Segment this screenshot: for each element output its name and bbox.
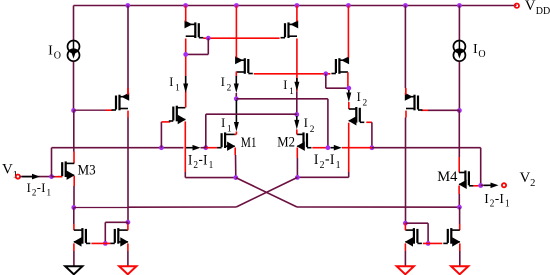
node Qbl-gates — [103, 241, 108, 246]
svg-text:2: 2 — [530, 178, 535, 189]
wire T2 source — [185, 6, 187, 22]
wire M1 source b — [235, 155, 237, 178]
wire Qbr1 gnd — [404, 243, 406, 266]
svg-text:I: I — [188, 153, 193, 169]
node T2-drain-diode — [183, 52, 188, 57]
wire T3-T4 gate — [254, 73, 331, 75]
wire T4 drain a — [347, 72, 349, 88]
arrow I1-left — [183, 76, 188, 93]
wire M4 source a — [458, 186, 460, 195]
svg-text:M2: M2 — [277, 135, 295, 151]
wire T7 drain b — [296, 91, 298, 114]
svg-text:1: 1 — [47, 187, 52, 197]
wire T6 drain — [348, 102, 350, 109]
svg-text:I: I — [221, 116, 225, 130]
wire M1 drain — [235, 132, 237, 135]
transistor T2 — [185, 20, 204, 38]
wire T8 drain a — [405, 111, 407, 118]
svg-text:I: I — [304, 116, 308, 130]
wire Qbr2 drain a — [459, 207, 461, 224]
label M1 — [241, 134, 257, 151]
wire V1-rail — [51, 148, 53, 177]
wire T8 source — [404, 6, 406, 95]
terminal V2 — [502, 183, 506, 187]
svg-text:I: I — [41, 181, 45, 195]
wire Qbl2 drain — [127, 222, 129, 230]
svg-text:I: I — [330, 152, 335, 168]
arrow I2-348 — [346, 90, 351, 102]
node T1-gate — [71, 108, 76, 113]
transistor M2 — [297, 132, 312, 151]
wire V1-M3gate b — [55, 176, 62, 178]
wire T1 source — [127, 6, 129, 95]
wire T7 drain a — [296, 39, 298, 92]
transistor Qbl1 — [73, 228, 90, 247]
svg-text:1: 1 — [209, 160, 214, 172]
wire bottom-right long — [297, 206, 459, 208]
wire T2 drain — [185, 39, 187, 108]
node T5-gate-rail — [159, 145, 164, 150]
wire box-left bottom — [185, 177, 236, 179]
transistor T7 — [281, 20, 299, 38]
arrow I1-M1 — [234, 100, 239, 132]
node rail-M1link — [203, 145, 208, 150]
svg-text:I: I — [500, 190, 504, 206]
node rail-M2link — [326, 145, 331, 150]
wire rail-right b — [372, 147, 481, 149]
svg-text:I: I — [221, 75, 225, 89]
svg-text:I: I — [357, 90, 361, 104]
wire bottom-left long — [74, 206, 236, 209]
wire V1 — [20, 176, 52, 178]
transistor T5 — [169, 106, 186, 125]
svg-text:I: I — [283, 78, 287, 92]
wire T2-T7 gate — [203, 37, 279, 39]
wire T6 source — [348, 123, 350, 178]
svg-text:1: 1 — [227, 125, 232, 135]
svg-text:M3: M3 — [77, 161, 95, 178]
ground Qbr1 — [397, 266, 414, 274]
node rail-T4 — [346, 3, 351, 8]
wire T4 diode h — [326, 87, 349, 89]
wire X diag lr — [236, 178, 297, 207]
wire T4 source — [347, 6, 349, 58]
wire M4 drain b — [458, 157, 460, 173]
label M4 — [437, 169, 458, 185]
wire link-114 h — [206, 113, 297, 115]
svg-text:I: I — [48, 44, 53, 59]
label IO1 — [48, 44, 61, 62]
label M2 — [277, 135, 295, 151]
wire box-right bottom — [297, 176, 348, 178]
label I21-V2 — [484, 190, 509, 210]
svg-text:2: 2 — [490, 198, 495, 209]
transistor M4 — [459, 171, 474, 190]
terminal VDD — [515, 3, 519, 7]
svg-text:M4: M4 — [437, 169, 458, 185]
svg-text:I: I — [203, 153, 208, 169]
arrow I2-236 — [234, 76, 239, 93]
wire link-99 h — [236, 98, 328, 100]
node T6-gate-rail — [370, 145, 375, 150]
wire T4 diode v — [325, 74, 327, 88]
wire M3 drain a — [73, 111, 75, 152]
wire Qbl2 gnd — [127, 243, 129, 266]
wire Qbr gates — [423, 242, 442, 244]
wire rail-M1gate — [206, 147, 217, 149]
wire T5 gate v — [160, 122, 162, 148]
node rail-IO2 — [457, 3, 462, 8]
node rail-T2 — [183, 3, 188, 8]
wire Qbl1 gnd — [73, 243, 75, 266]
wire T8 gate b — [421, 109, 428, 111]
svg-text:2: 2 — [32, 187, 36, 197]
label VDD — [525, 0, 550, 17]
label IO2 — [473, 42, 486, 60]
label M3 — [77, 161, 95, 178]
wire rail-left b — [201, 147, 206, 149]
wire T5 source — [184, 121, 186, 177]
transistor M1 — [217, 132, 235, 151]
wire M2 gate — [312, 147, 328, 149]
label I2-348 — [357, 90, 368, 109]
wire rail-right a — [342, 147, 372, 149]
svg-text:1: 1 — [175, 84, 180, 94]
ground Qbl2 — [119, 266, 136, 274]
wire T5 gate h — [161, 121, 170, 123]
wire M3 drain b — [73, 152, 75, 164]
wire M4 drain a — [458, 111, 460, 158]
wire M4 gate — [473, 185, 481, 187]
svg-text:M1: M1 — [241, 134, 257, 151]
ground Qbr2 — [451, 266, 468, 274]
transistor T8 — [405, 93, 423, 111]
wire T1 gate a — [74, 109, 106, 111]
node rail-T3 — [234, 3, 239, 8]
wire T8 drain b — [405, 118, 407, 224]
arrow I2-M2 — [294, 116, 299, 129]
wire link-114 v — [205, 114, 207, 148]
wire T2 diode v — [207, 38, 209, 54]
wire X diag rl — [236, 177, 297, 207]
node M4-Qbr2 — [457, 205, 462, 210]
label I1-left — [169, 75, 180, 94]
wire Qbl1 drain a — [73, 208, 75, 225]
wire VDD rail — [74, 5, 517, 7]
svg-text:V: V — [525, 0, 536, 14]
label I21-V1 — [27, 180, 51, 197]
ground Qbl1 — [65, 266, 82, 274]
label I21-right — [314, 151, 341, 171]
transistor T4 — [331, 56, 349, 74]
current source IO2 — [453, 41, 465, 62]
label I1-M1 — [221, 116, 232, 135]
node Qbr-gates — [426, 241, 431, 246]
wire T6 gate h — [366, 121, 372, 123]
wire T3 drain b — [235, 93, 237, 99]
wire M3 source b — [73, 186, 75, 208]
node X-right — [295, 175, 300, 180]
node M3-Qbl1 — [71, 205, 76, 210]
node rail-T1 — [125, 3, 130, 8]
arrow I1-297 — [294, 78, 299, 91]
svg-text:2: 2 — [227, 84, 232, 94]
node Qbr1-diode — [403, 221, 408, 226]
current source IO1 — [68, 41, 80, 62]
label I1-297 — [283, 78, 294, 97]
wire V2 — [481, 184, 488, 186]
wire M2 source b — [296, 158, 298, 177]
wire M2 drain — [296, 129, 298, 134]
wire T3 drain a — [235, 72, 237, 78]
transistor Qbr2 — [443, 228, 460, 247]
terminal V1 — [16, 175, 20, 179]
label I21-left — [188, 152, 213, 171]
arrow I21-V2 — [484, 183, 499, 189]
wire T6 gate v — [371, 122, 373, 147]
node rail-T7 — [295, 3, 300, 8]
node 236-junction — [234, 96, 239, 101]
wire M2 source a — [296, 148, 298, 159]
node V2 — [478, 183, 483, 188]
svg-text:2: 2 — [310, 125, 315, 135]
transistor T3 — [235, 56, 253, 74]
label V1 — [2, 162, 18, 181]
wire Qbr1 drain — [404, 223, 406, 230]
wire M4 source b — [458, 194, 460, 207]
wire T1 gate b — [106, 109, 113, 111]
transistor M3 — [58, 161, 75, 180]
node T4-drain-diode — [346, 86, 351, 91]
svg-text:I: I — [484, 190, 488, 206]
node 297-junction — [294, 112, 299, 117]
node T4-diode — [323, 71, 328, 76]
svg-text:DD: DD — [536, 6, 550, 17]
node rail-T8 — [403, 3, 408, 8]
transistor Qbl2 — [110, 228, 128, 247]
svg-text:2: 2 — [363, 99, 368, 109]
wire M1 source a — [234, 148, 236, 156]
arrow I21-right — [331, 145, 342, 151]
wire T1 drain a — [127, 111, 129, 118]
svg-text:2: 2 — [193, 160, 198, 172]
svg-text:O: O — [54, 50, 61, 61]
svg-text:-: - — [495, 190, 499, 206]
wire Qbl1 drain b — [73, 224, 75, 230]
wire M3 source a — [73, 176, 75, 186]
wire IO1 top — [73, 6, 75, 41]
svg-text:2: 2 — [320, 160, 325, 171]
wire Qbl gates — [91, 242, 110, 244]
wire V1-M3gate a — [52, 176, 56, 178]
wire rail-left a — [52, 147, 184, 149]
svg-text:V: V — [520, 170, 531, 186]
label V2 — [520, 170, 536, 189]
svg-text:I: I — [314, 152, 319, 168]
svg-text:V: V — [2, 162, 13, 178]
wire Qbr2 gnd — [459, 243, 461, 266]
wire T8 gate a — [428, 109, 460, 111]
wire IO1 bottom — [73, 62, 75, 111]
wire rail-right v — [480, 148, 482, 185]
svg-text:1: 1 — [505, 198, 510, 209]
node Qbl2-diode — [126, 220, 131, 225]
wire IO2 top — [458, 6, 460, 41]
wire T7 source — [296, 6, 298, 22]
wire Qbl2 diode v — [104, 222, 106, 243]
wire T2 diode h — [186, 53, 209, 55]
wire IO2 bottom — [458, 62, 460, 111]
label I2-M2 — [304, 116, 315, 135]
wire T3 source — [235, 6, 237, 58]
wire Qbr1 diode h — [405, 222, 428, 224]
node T8-gate — [457, 108, 462, 113]
arrow I21-V1 — [22, 174, 40, 180]
wire link-99 v — [327, 99, 329, 148]
transistor T1 — [112, 93, 130, 111]
arrow I21-left — [186, 145, 201, 151]
wire Qbr2 drain b — [459, 224, 461, 230]
wire Qbl2 diode h — [105, 221, 128, 223]
label I2-236 — [221, 75, 232, 94]
node V1 — [49, 174, 54, 179]
svg-text:I: I — [473, 42, 478, 57]
wire T1 drain b — [127, 118, 129, 223]
svg-text:1: 1 — [289, 87, 294, 97]
wire Qbr1 diode v — [427, 223, 429, 243]
node T2-diode — [206, 36, 211, 41]
svg-text:1: 1 — [336, 160, 341, 171]
transistor T6 — [348, 107, 364, 126]
svg-text:I: I — [169, 75, 173, 89]
svg-text:I: I — [27, 181, 31, 195]
svg-text:O: O — [478, 49, 485, 60]
node X-left — [233, 175, 238, 180]
transistor Qbr1 — [405, 228, 422, 247]
